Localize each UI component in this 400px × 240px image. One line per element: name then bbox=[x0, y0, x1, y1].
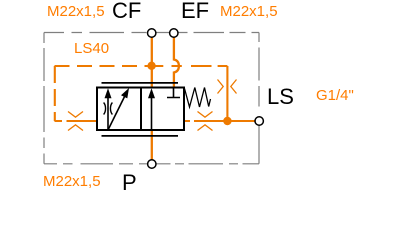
enclosure boundary bottom edge bbox=[44, 163, 259, 165]
pilot wire right vertical segment bbox=[223, 66, 254, 121]
pilot wire left horizontal to valve bbox=[55, 120, 98, 122]
label M22x1,5 top left bbox=[47, 3, 105, 20]
right position: blocked port T symbol bbox=[167, 88, 180, 98]
label LS40 bbox=[74, 40, 109, 57]
left position: diagonal flow path arrow bbox=[108, 95, 126, 130]
label EF bbox=[181, 0, 209, 24]
spring (valve return spring) bbox=[185, 88, 211, 108]
left position: venturi restriction marks bbox=[104, 103, 113, 115]
label LS bbox=[267, 84, 294, 110]
restrictor (fixed orifice) on right vertical pilot line bbox=[218, 80, 237, 94]
port P circle bbox=[148, 160, 156, 168]
wire P line (valve bottom to port P) bbox=[151, 130, 153, 160]
LS pilot dashed line (horizontal, net LS40) bbox=[55, 65, 228, 67]
junction dot at CF / LS pilot crossing bbox=[147, 62, 155, 70]
wire spring-side pilot to LS port bbox=[185, 120, 228, 122]
enclosure boundary left edge bbox=[43, 33, 45, 164]
port EF circle bbox=[170, 29, 178, 37]
label M22x1,5 top right bbox=[220, 3, 278, 20]
label G1/4" bbox=[316, 87, 354, 104]
restrictor (fixed orifice) on left pilot line bbox=[68, 112, 83, 131]
pilot wire left vertical segment (dashed) bbox=[54, 66, 56, 121]
wire CF line (port CF to valve) bbox=[151, 37, 153, 88]
left position: throttled flow path vertical arrow bbox=[107, 96, 109, 130]
proportional valve rail top bbox=[102, 82, 179, 84]
port CF circle bbox=[148, 29, 156, 37]
restrictor (fixed orifice) on LS port line bbox=[198, 112, 213, 131]
right position: straight flow path vertical arrow bbox=[151, 96, 153, 130]
wire EF line with hop over LS pilot line bbox=[174, 37, 179, 88]
proportional valve rail bottom bbox=[102, 135, 179, 137]
port LS circle bbox=[255, 117, 263, 125]
junction dot at LS port line / pilot vertical bbox=[223, 117, 231, 125]
valve V1 body (two position boxes) bbox=[97, 88, 184, 131]
label CF bbox=[112, 0, 141, 24]
enclosure boundary top edge bbox=[44, 32, 259, 34]
label P bbox=[122, 170, 137, 196]
enclosure boundary right edge bbox=[258, 33, 260, 164]
label M22x1,5 bottom bbox=[43, 173, 101, 190]
valve V1 position divider bbox=[140, 88, 142, 131]
